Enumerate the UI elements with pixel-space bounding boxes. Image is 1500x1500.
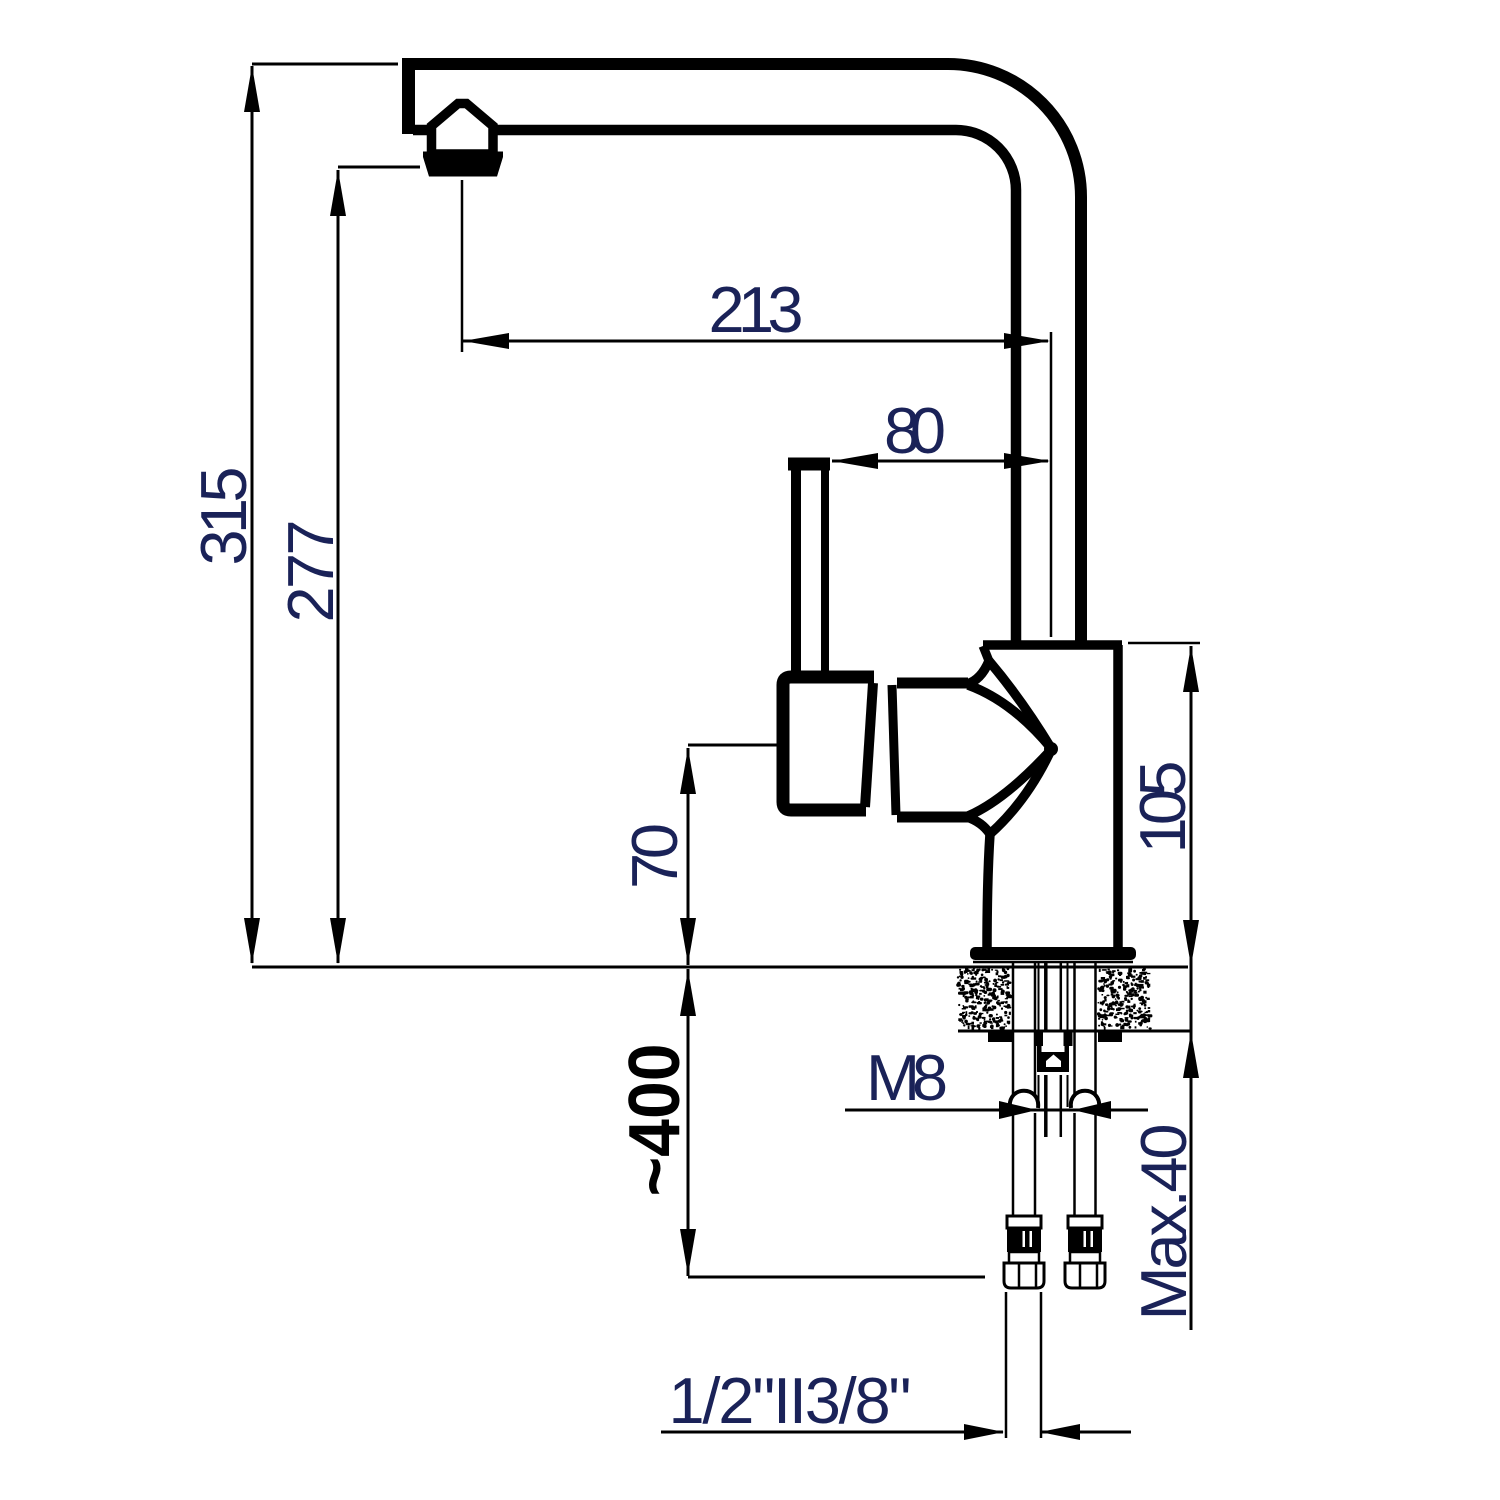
svg-text:Max.40: Max.40 — [1127, 1124, 1200, 1321]
svg-text:277: 277 — [274, 520, 347, 623]
svg-text:~400: ~400 — [615, 1044, 695, 1197]
svg-text:70: 70 — [618, 823, 691, 889]
svg-text:315: 315 — [187, 467, 260, 566]
svg-text:1/2"II3/8": 1/2"II3/8" — [669, 1364, 912, 1437]
svg-text:M8: M8 — [866, 1041, 948, 1114]
svg-text:105: 105 — [1126, 761, 1199, 854]
svg-text:80: 80 — [884, 394, 946, 467]
svg-text:213: 213 — [709, 273, 804, 346]
